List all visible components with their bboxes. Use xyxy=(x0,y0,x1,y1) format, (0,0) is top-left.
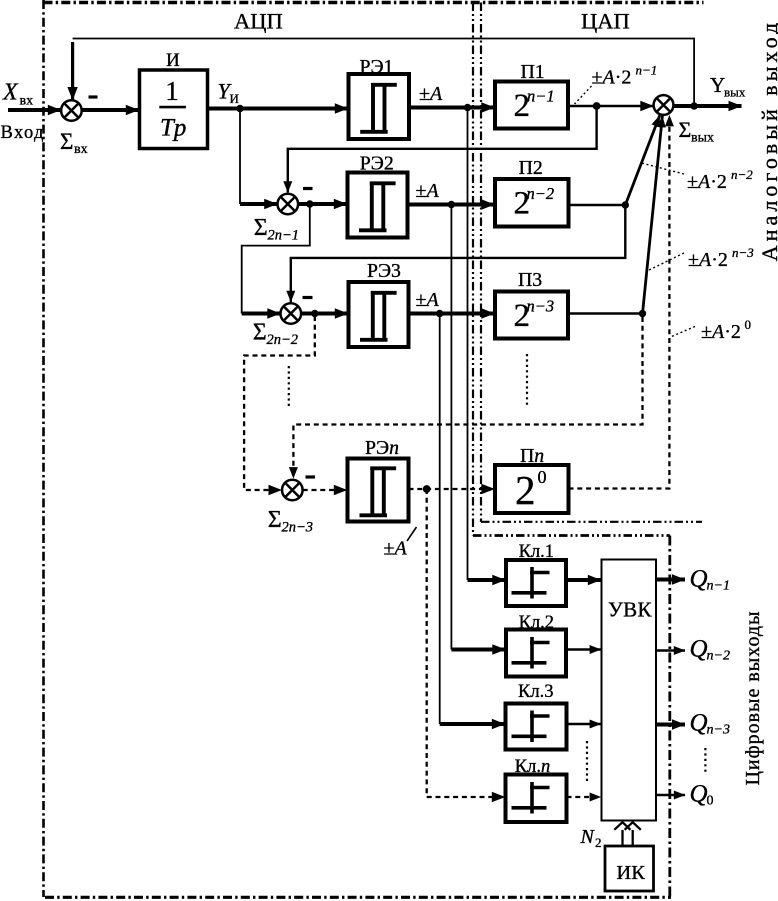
svg-text:Вход: Вход xyxy=(1,123,45,143)
svg-text:ЦАП: ЦАП xyxy=(581,9,630,34)
svg-text:вх: вх xyxy=(20,94,34,109)
svg-text:РЭ2: РЭ2 xyxy=(360,153,394,175)
svg-text:Q: Q xyxy=(690,710,708,737)
svg-text:И: И xyxy=(166,50,180,71)
svg-text:ИК: ИК xyxy=(616,862,645,884)
svg-text:Q: Q xyxy=(690,636,708,663)
svg-text:Пn: Пn xyxy=(520,445,544,467)
svg-text:Y: Y xyxy=(710,73,725,97)
svg-text:Tp: Tp xyxy=(160,115,186,142)
svg-text:Q: Q xyxy=(690,781,708,808)
svg-text:УВК: УВК xyxy=(608,598,652,622)
svg-text:Цифровые выходы: Цифровые выходы xyxy=(742,610,764,785)
svg-text:Σ: Σ xyxy=(253,320,267,346)
svg-text:±A: ±A xyxy=(419,83,443,105)
svg-text:П3: П3 xyxy=(518,269,542,291)
svg-text:Q: Q xyxy=(690,566,708,593)
svg-text:2n−2: 2n−2 xyxy=(267,332,299,348)
svg-text:X: X xyxy=(2,80,19,106)
svg-text:2: 2 xyxy=(595,835,602,850)
svg-text:n−2: n−2 xyxy=(731,167,753,182)
svg-text:n−1: n−1 xyxy=(636,63,658,78)
svg-text:Σ: Σ xyxy=(268,507,282,533)
svg-text:РЭn: РЭn xyxy=(365,437,399,459)
svg-text:±A: ±A xyxy=(416,289,440,311)
svg-text:Кл.1: Кл.1 xyxy=(519,542,554,562)
svg-text:Σ: Σ xyxy=(679,117,692,142)
svg-text:±A: ±A xyxy=(384,538,408,560)
svg-text:Аналоговый выход: Аналоговый выход xyxy=(757,19,778,261)
svg-text:П1: П1 xyxy=(521,61,545,83)
svg-text:П2: П2 xyxy=(519,157,543,179)
svg-text:Кл.2: Кл.2 xyxy=(519,613,554,633)
svg-text:n−2: n−2 xyxy=(527,184,555,203)
svg-text:2n−1: 2n−1 xyxy=(268,228,300,244)
svg-text:0: 0 xyxy=(745,317,752,332)
svg-text:±A·2: ±A·2 xyxy=(688,249,728,271)
svg-text:Кл.n: Кл.n xyxy=(515,757,550,777)
svg-text:n−1: n−1 xyxy=(707,579,730,594)
svg-text:0: 0 xyxy=(538,467,547,487)
svg-text:2: 2 xyxy=(515,467,536,513)
svg-text:±A·2: ±A·2 xyxy=(687,171,727,193)
svg-text:АЦП: АЦП xyxy=(234,9,283,34)
svg-text:±A·2: ±A·2 xyxy=(701,321,741,343)
svg-text:Σ: Σ xyxy=(254,215,268,241)
svg-text:n−3: n−3 xyxy=(527,296,555,315)
svg-text:n−3: n−3 xyxy=(732,245,754,260)
svg-text:n−2: n−2 xyxy=(707,649,730,664)
svg-text:0: 0 xyxy=(707,794,714,809)
svg-text:n−1: n−1 xyxy=(527,87,555,106)
svg-text:вых: вых xyxy=(724,85,746,100)
svg-text:1: 1 xyxy=(165,76,179,106)
svg-text:вх: вх xyxy=(74,142,88,157)
svg-text:n−3: n−3 xyxy=(707,723,730,738)
svg-text:РЭ3: РЭ3 xyxy=(367,260,401,282)
svg-text:2n−3: 2n−3 xyxy=(282,520,314,536)
svg-text:N: N xyxy=(580,826,596,848)
svg-text:РЭ1: РЭ1 xyxy=(360,56,394,78)
svg-text:±A·2: ±A·2 xyxy=(592,67,632,89)
svg-text:Кл.3: Кл.3 xyxy=(518,682,553,702)
svg-text:вых: вых xyxy=(691,131,714,146)
svg-text:И: И xyxy=(230,91,239,106)
svg-text:Σ: Σ xyxy=(60,129,73,154)
svg-text:±A: ±A xyxy=(416,180,440,202)
